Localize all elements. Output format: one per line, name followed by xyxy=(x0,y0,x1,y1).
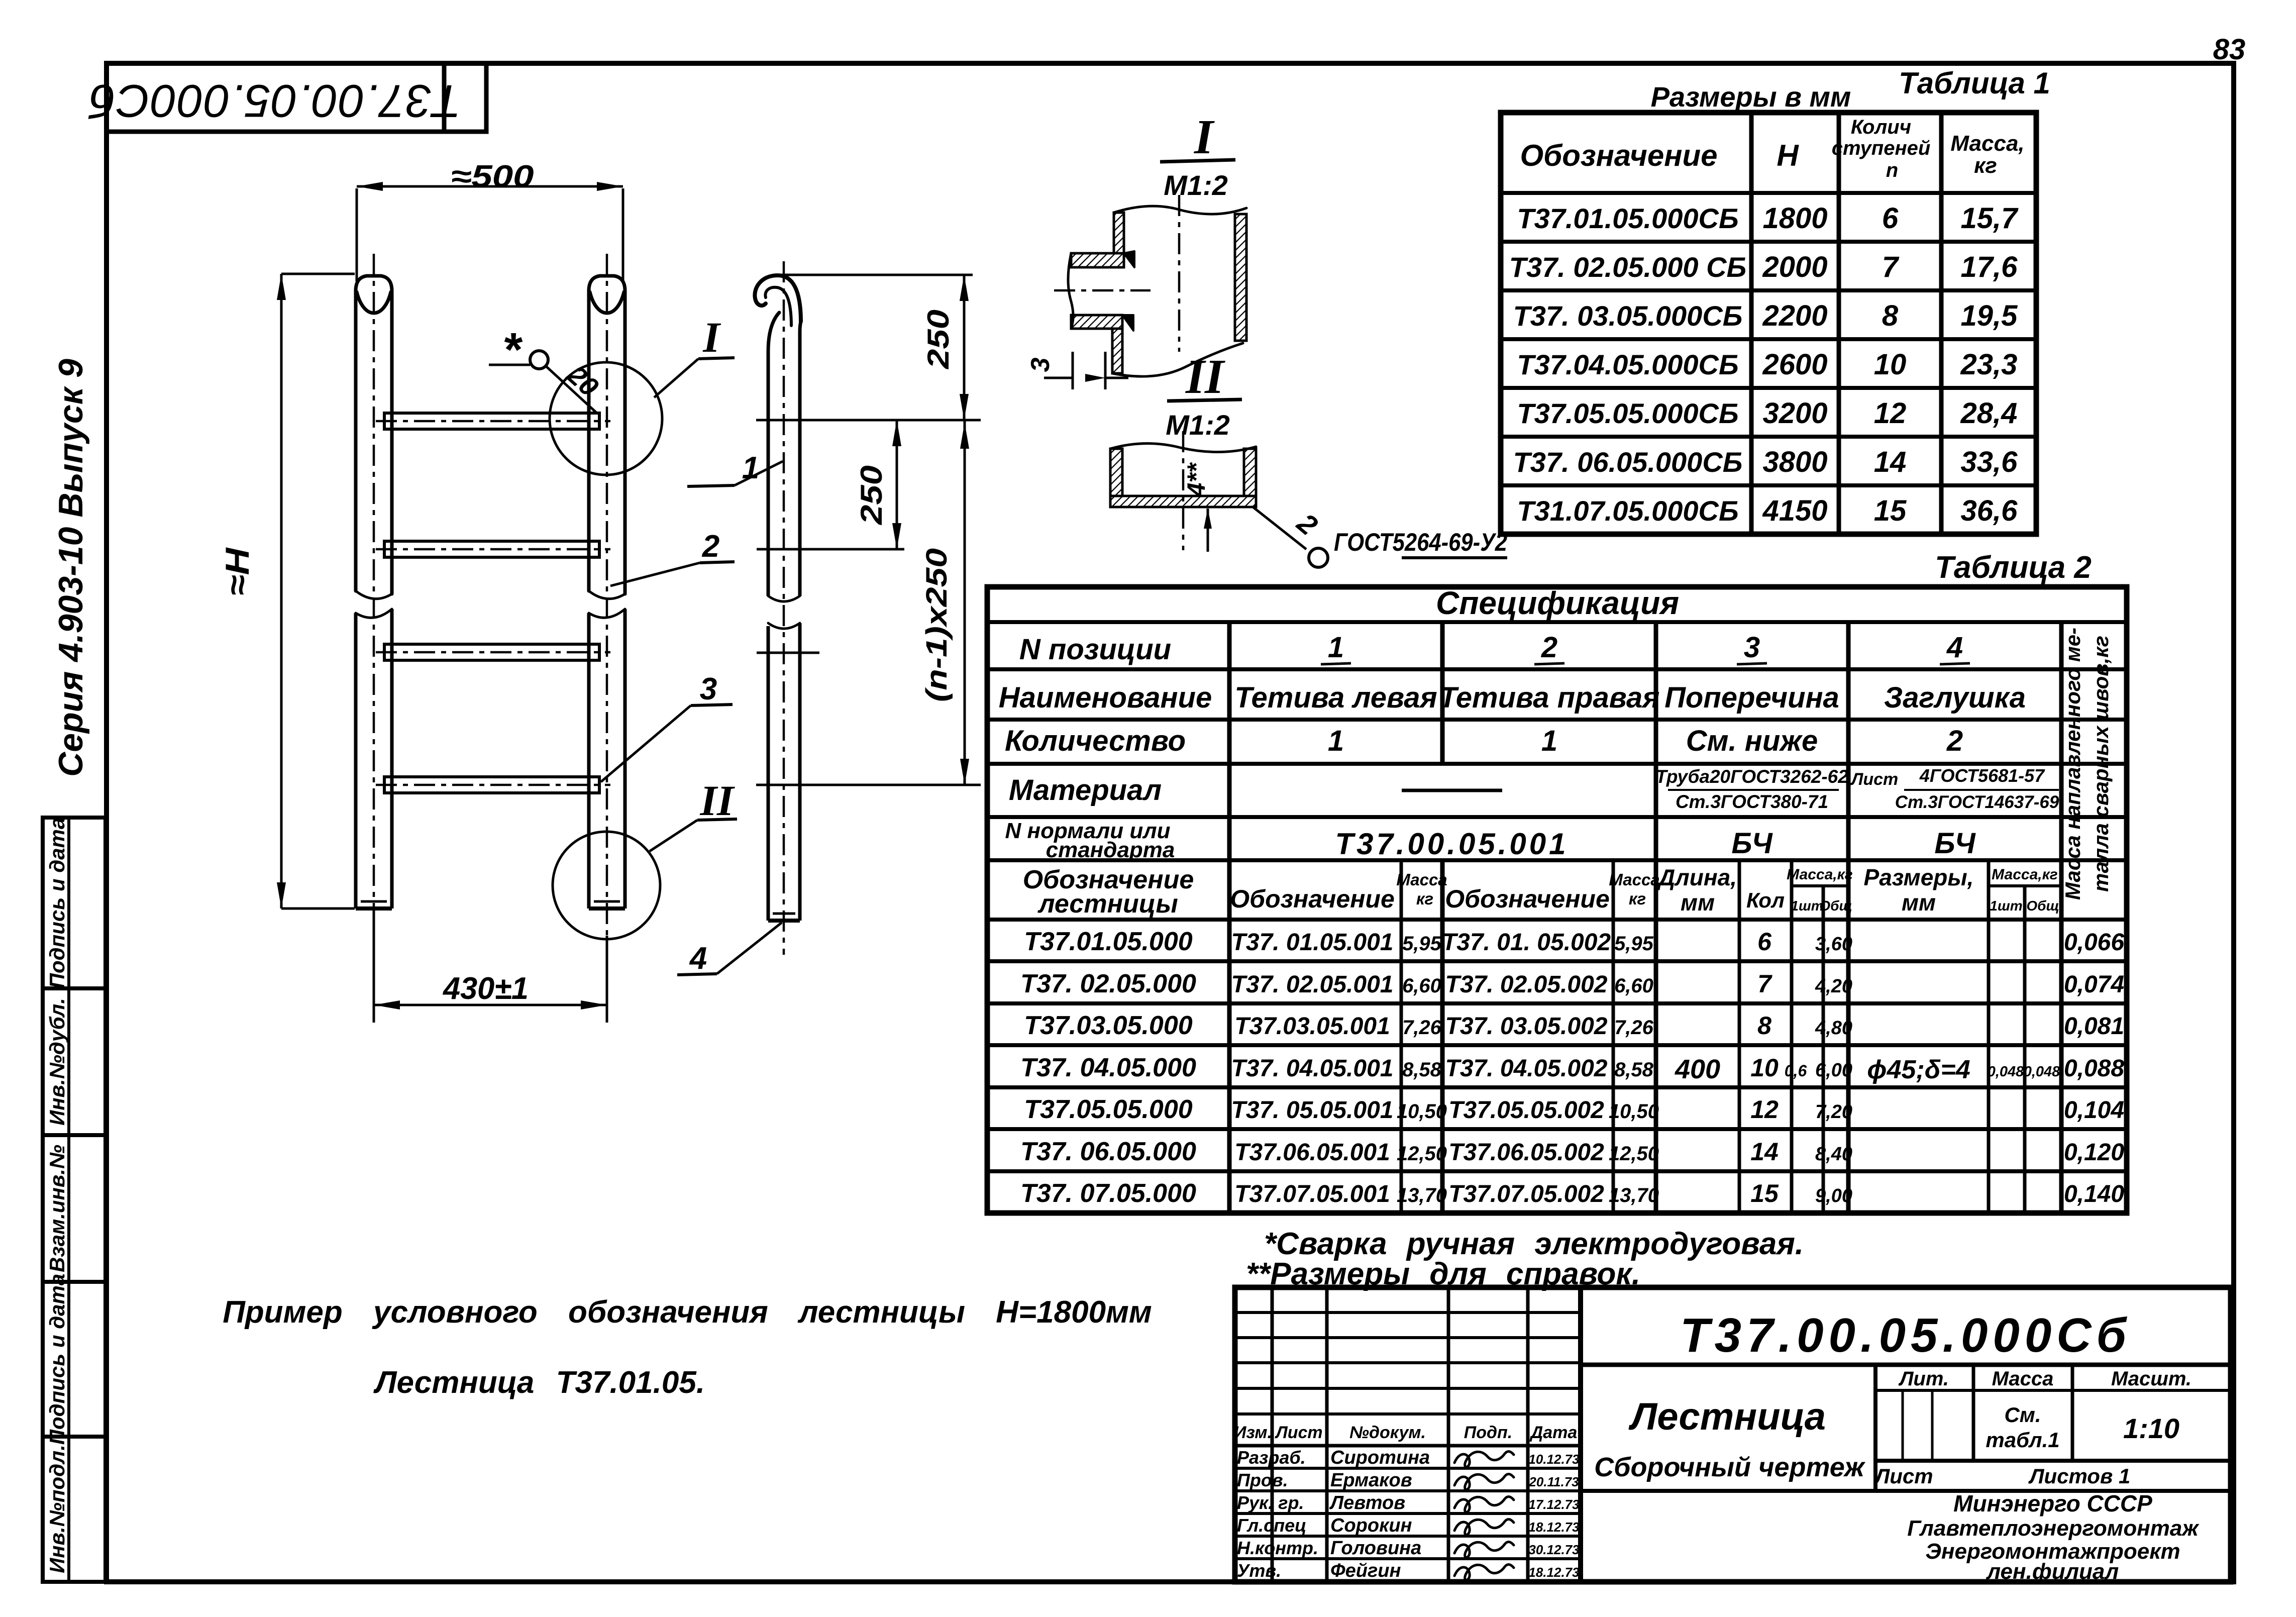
svg-text:6,00: 6,00 xyxy=(1815,1060,1852,1081)
svg-text:Размеры,: Размеры, xyxy=(1864,864,1974,890)
svg-text:10: 10 xyxy=(1874,348,1907,381)
svg-text:Сорокин: Сорокин xyxy=(1330,1515,1412,1536)
svg-text:6,60: 6,60 xyxy=(1614,975,1653,997)
svg-text:14: 14 xyxy=(1750,1138,1779,1166)
svg-text:0,048: 0,048 xyxy=(2024,1064,2060,1080)
svg-text:4: 4 xyxy=(689,941,707,976)
svg-text:Масса,кг: Масса,кг xyxy=(1992,866,2058,883)
svg-text:Т37. 02.05.002: Т37. 02.05.002 xyxy=(1445,971,1608,998)
table 2 grid xyxy=(987,587,2127,1213)
svg-text:10: 10 xyxy=(1750,1054,1779,1082)
svg-text:Ермаков: Ермаков xyxy=(1330,1470,1412,1491)
svg-text:Дата: Дата xyxy=(1529,1423,1578,1442)
svg-text:Т37.01.05.000: Т37.01.05.000 xyxy=(1024,927,1192,956)
svg-text:мм: мм xyxy=(1902,889,1936,916)
svg-text:12: 12 xyxy=(1750,1095,1779,1124)
svg-text:Подп.: Подп. xyxy=(1464,1423,1512,1442)
right rail centerline xyxy=(606,254,608,1023)
svg-text:≈500: ≈500 xyxy=(451,159,534,194)
svg-text:Головина: Головина xyxy=(1330,1538,1421,1559)
svg-text:Рук. гр.: Рук. гр. xyxy=(1237,1492,1304,1513)
svg-text:Тетива левая: Тетива левая xyxy=(1234,681,1437,714)
detail I dim 3 xyxy=(1072,352,1074,389)
svg-text:Лестница: Лестница xyxy=(1628,1395,1826,1438)
svg-text:БЧ: БЧ xyxy=(1934,827,1976,860)
svg-text:Т37.03.05.000: Т37.03.05.000 xyxy=(1024,1011,1192,1040)
doc number cell xyxy=(1581,1363,2231,1367)
svg-text:13,70: 13,70 xyxy=(1609,1184,1659,1206)
svg-text:8: 8 xyxy=(1882,299,1899,332)
svg-text:14: 14 xyxy=(1874,446,1907,478)
svg-text:7,26: 7,26 xyxy=(1402,1017,1442,1039)
svg-text:Заглушка: Заглушка xyxy=(1884,681,2026,714)
detail I: rung bottom wall (hatched) xyxy=(1071,315,1122,329)
svg-text:Т37. 04.05.000: Т37. 04.05.000 xyxy=(1020,1053,1196,1082)
svg-text:мм: мм xyxy=(1681,889,1715,916)
detail I: rail wall right (hatched) xyxy=(1235,214,1246,341)
svg-text:Главтеплоэнергомонтаж: Главтеплоэнергомонтаж xyxy=(1907,1516,2200,1541)
svg-text:4,80: 4,80 xyxy=(1815,1018,1852,1039)
svg-text:0,066: 0,066 xyxy=(2064,929,2124,956)
weld note leader 2 xyxy=(1254,508,1306,549)
svg-text:Обозначение: Обозначение xyxy=(1520,139,1717,172)
svg-text:М1:2: М1:2 xyxy=(1166,409,1230,441)
svg-text:18.12.73: 18.12.73 xyxy=(1528,1565,1580,1580)
side view hook top xyxy=(755,275,801,322)
svg-text:Масса,кг: Масса,кг xyxy=(1787,866,1853,883)
svg-text:4150: 4150 xyxy=(1762,494,1827,527)
detail I: rail wall left upper (hatched) xyxy=(1114,213,1124,257)
side view tube xyxy=(767,352,770,596)
svg-text:430±1: 430±1 xyxy=(442,971,529,1006)
detail II: end cap (hatched) xyxy=(1110,496,1256,507)
svg-text:10.12.73: 10.12.73 xyxy=(1528,1452,1580,1467)
svg-text:3: 3 xyxy=(1026,357,1055,372)
svg-text:2: 2 xyxy=(1541,631,1557,664)
svg-text:*Сварка ручная электродугова: *Сварка ручная электродуговая. xyxy=(1264,1227,1804,1261)
detail II centerline xyxy=(1182,431,1185,550)
svg-text:9,00: 9,00 xyxy=(1815,1185,1852,1206)
lit massa masht cells xyxy=(1873,1365,1877,1491)
svg-text:ГОСТ5264-69-У2: ГОСТ5264-69-У2 xyxy=(1334,528,1507,556)
svg-text:5,95: 5,95 xyxy=(1402,933,1442,955)
svg-text:23,3: 23,3 xyxy=(1960,348,2018,381)
svg-text:0,048: 0,048 xyxy=(1988,1064,2024,1080)
svg-text:Т37.05.05.002: Т37.05.05.002 xyxy=(1448,1097,1604,1124)
svg-text:0,074: 0,074 xyxy=(2064,971,2124,998)
svg-text:Н.контр.: Н.контр. xyxy=(1237,1538,1318,1558)
svg-text:кг: кг xyxy=(1416,889,1433,908)
svg-text:1:10: 1:10 xyxy=(2123,1412,2179,1444)
svg-text:Т37.04.05.000СБ: Т37.04.05.000СБ xyxy=(1517,349,1738,380)
svg-text:лен.филиал: лен.филиал xyxy=(1986,1559,2119,1584)
detail I break lines xyxy=(1114,206,1246,214)
svg-text:Обозначение: Обозначение xyxy=(1230,885,1395,913)
svg-text:Лист: Лист xyxy=(1873,1464,1933,1488)
margin strip boxes xyxy=(43,818,106,1582)
svg-text:I: I xyxy=(1194,110,1215,164)
svg-text:Масшт.: Масшт. xyxy=(2111,1368,2191,1390)
svg-text:3200: 3200 xyxy=(1762,397,1827,430)
svg-text:Взам.инв.№: Взам.инв.№ xyxy=(45,1145,69,1272)
svg-text:17,6: 17,6 xyxy=(1961,251,2018,283)
svg-text:Т37. 05.05.001: Т37. 05.05.001 xyxy=(1231,1097,1394,1124)
svg-text:1шт: 1шт xyxy=(1791,898,1823,914)
svg-text:2: 2 xyxy=(702,529,719,564)
svg-text:0,120: 0,120 xyxy=(2064,1139,2124,1166)
svg-text:33,6: 33,6 xyxy=(1961,446,2018,478)
svg-text:12: 12 xyxy=(1874,397,1907,430)
detail circle II on rail bottom xyxy=(553,832,660,939)
svg-text:10,50: 10,50 xyxy=(1397,1100,1447,1123)
svg-text:кг: кг xyxy=(1974,153,1997,178)
svg-text:Т37. 07.05.000: Т37. 07.05.000 xyxy=(1020,1179,1196,1208)
table 1 grid xyxy=(1501,113,2036,534)
svg-text:13,70: 13,70 xyxy=(1397,1184,1447,1206)
svg-text:Лист: Лист xyxy=(1850,770,1898,789)
svg-text:4: 4 xyxy=(1946,631,1963,664)
svg-text:Серия 4.903-10 Выпуск 9: Серия 4.903-10 Выпуск 9 xyxy=(52,359,90,777)
svg-text:Лестница Т37.01.05.: Лестница Т37.01.05. xyxy=(373,1365,705,1400)
svg-text:30.12.73: 30.12.73 xyxy=(1528,1542,1580,1557)
detail II: tube wall right (hatched) xyxy=(1244,449,1256,503)
svg-text:Утв.: Утв. xyxy=(1237,1560,1281,1581)
svg-text:*: * xyxy=(504,323,523,376)
svg-text:II: II xyxy=(1185,350,1225,404)
stamp box (inverted doc number) xyxy=(107,63,486,132)
svg-text:2600: 2600 xyxy=(1762,348,1827,381)
svg-text:250: 250 xyxy=(855,465,888,525)
svg-text:Наименование: Наименование xyxy=(999,681,1212,714)
svg-text:7,26: 7,26 xyxy=(1614,1017,1654,1039)
list / listov row xyxy=(1581,1489,2231,1493)
detail I centerlines xyxy=(1178,195,1181,352)
rungs (poperechina) xyxy=(384,413,599,429)
svg-text:Масса: Масса xyxy=(1396,870,1447,889)
svg-text:Тетива правая: Тетива правая xyxy=(1439,681,1660,714)
svg-text:ступеней: ступеней xyxy=(1832,137,1931,159)
svg-text:1шт: 1шт xyxy=(1990,898,2022,914)
svg-text:Т37. 04.05.002: Т37. 04.05.002 xyxy=(1445,1055,1608,1082)
hook top extension line xyxy=(776,274,973,276)
svg-text:Инв.№дубл.: Инв.№дубл. xyxy=(45,998,69,1126)
svg-text:Т37.03.05.001: Т37.03.05.001 xyxy=(1234,1013,1390,1040)
svg-text:0,140: 0,140 xyxy=(2064,1181,2124,1207)
svg-text:18.12.73: 18.12.73 xyxy=(1528,1520,1580,1535)
detail circle I on joint xyxy=(550,362,662,475)
svg-text:0,088: 0,088 xyxy=(2064,1055,2124,1082)
svg-text:15: 15 xyxy=(1750,1179,1779,1207)
svg-text:2: 2 xyxy=(1946,725,1963,757)
svg-text:БЧ: БЧ xyxy=(1731,827,1773,860)
svg-text:7,20: 7,20 xyxy=(1815,1101,1852,1123)
svg-text:Т37. 01. 05.002: Т37. 01. 05.002 xyxy=(1442,929,1611,956)
ladder front view: left rail (tetiva) xyxy=(356,276,392,594)
svg-text:Т37.01.05.000СБ: Т37.01.05.000СБ xyxy=(1517,203,1738,234)
svg-text:6: 6 xyxy=(1757,928,1772,956)
left rail centerline xyxy=(373,254,375,935)
svg-text:2000: 2000 xyxy=(1762,251,1827,283)
svg-text:Т37.00.05.000Сб: Т37.00.05.000Сб xyxy=(1680,1308,2131,1362)
detail I weld fillets xyxy=(1124,251,1134,267)
svg-text:0,6: 0,6 xyxy=(1785,1062,1807,1080)
svg-text:Сборочный чертеж: Сборочный чертеж xyxy=(1594,1452,1866,1482)
svg-text:Таблица 2: Таблица 2 xyxy=(1935,550,2092,585)
title block revision columns xyxy=(1271,1287,1274,1582)
detail I: rung top wall (hatched) xyxy=(1071,253,1124,267)
svg-text:Кол: Кол xyxy=(1746,888,1785,912)
svg-text:Подпись и дата: Подпись и дата xyxy=(45,1274,69,1445)
svg-text:Длина,: Длина, xyxy=(1656,864,1737,890)
svg-text:стандарта: стандарта xyxy=(1046,838,1175,862)
dim (n-1)x250 xyxy=(964,420,966,785)
svg-text:4ГОСТ5681-57: 4ГОСТ5681-57 xyxy=(1919,765,2045,786)
svg-text:Т37.05.05.000СБ: Т37.05.05.000СБ xyxy=(1517,397,1738,429)
svg-text:Левтов: Левтов xyxy=(1329,1492,1405,1513)
svg-text:кг: кг xyxy=(1629,889,1646,908)
svg-text:Минэнерго СССР: Минэнерго СССР xyxy=(1953,1490,2152,1517)
dim 250 (rung pitch) xyxy=(896,420,898,549)
svg-text:М1:2: М1:2 xyxy=(1164,169,1228,201)
svg-text:Т37.05.05.000: Т37.05.05.000 xyxy=(1024,1095,1192,1124)
svg-text:17.12.73: 17.12.73 xyxy=(1528,1497,1580,1512)
svg-text:Т37.07.05.001: Т37.07.05.001 xyxy=(1234,1181,1390,1207)
svg-text:250: 250 xyxy=(921,310,955,369)
svg-text:Т37. 02.05.001: Т37. 02.05.001 xyxy=(1231,971,1394,998)
svg-text:Колич: Колич xyxy=(1851,116,1911,138)
svg-text:19,5: 19,5 xyxy=(1961,299,2018,332)
svg-text:400: 400 xyxy=(1675,1054,1720,1084)
svg-text:15: 15 xyxy=(1874,494,1907,527)
svg-text:табл.1: табл.1 xyxy=(1986,1428,2059,1452)
svg-text:6: 6 xyxy=(1882,202,1899,235)
svg-text:83: 83 xyxy=(2213,33,2246,66)
svg-text:Т37. 06.05.000СБ: Т37. 06.05.000СБ xyxy=(1513,446,1743,478)
dim 430±1 xyxy=(373,911,375,1023)
side view tube break xyxy=(768,596,800,601)
svg-text:1: 1 xyxy=(1328,631,1344,664)
svg-text:3,60: 3,60 xyxy=(1815,934,1852,955)
svg-text:Масса,: Масса, xyxy=(1950,131,2024,156)
svg-text:n: n xyxy=(1886,159,1898,181)
weld note flag circle xyxy=(1309,548,1328,567)
svg-text:Подпись и дата: Подпись и дата xyxy=(45,818,69,988)
svg-text:7: 7 xyxy=(1882,251,1900,283)
svg-text:36,6: 36,6 xyxy=(1961,494,2018,527)
svg-text:Гл.спец: Гл.спец xyxy=(1237,1515,1306,1536)
svg-text:N позиции: N позиции xyxy=(1019,633,1171,666)
svg-text:Лит.: Лит. xyxy=(1898,1368,1949,1390)
svg-text:0,081: 0,081 xyxy=(2064,1013,2124,1040)
svg-text:№докум.: №докум. xyxy=(1349,1423,1426,1442)
svg-text:Количество: Количество xyxy=(1005,725,1186,757)
svg-text:лестницы: лестницы xyxy=(1037,889,1178,919)
svg-text:ϕ45;δ=4: ϕ45;δ=4 xyxy=(1867,1055,1970,1084)
svg-text:Масса наплавленного ме-: Масса наплавленного ме- xyxy=(2061,628,2084,900)
svg-text:Лист: Лист xyxy=(1274,1423,1322,1442)
svg-text:II: II xyxy=(700,776,735,825)
title block revision rows xyxy=(1235,1311,1581,1314)
svg-text:Т37.07.05.002: Т37.07.05.002 xyxy=(1448,1181,1604,1207)
svg-text:Материал: Материал xyxy=(1009,774,1162,806)
svg-text:4,20: 4,20 xyxy=(1815,976,1852,997)
svg-text:Т37. 01.05.001: Т37. 01.05.001 xyxy=(1231,929,1394,956)
svg-text:7: 7 xyxy=(1757,970,1772,998)
svg-text:1: 1 xyxy=(1541,725,1557,757)
weld leader with 20 xyxy=(547,367,597,413)
svg-text:Т37.00.05.001: Т37.00.05.001 xyxy=(1335,827,1569,861)
svg-text:Т37.06.05.002: Т37.06.05.002 xyxy=(1448,1139,1604,1166)
svg-text:1800: 1800 xyxy=(1762,202,1827,235)
svg-text:См.: См. xyxy=(2004,1403,2041,1427)
svg-text:Сиротина: Сиротина xyxy=(1330,1447,1430,1468)
svg-text:Т37. 02.05.000 СБ: Т37. 02.05.000 СБ xyxy=(1509,251,1746,283)
svg-text:Разраб.: Разраб. xyxy=(1237,1447,1306,1468)
svg-text:Т37.06.05.001: Т37.06.05.001 xyxy=(1234,1139,1390,1166)
svg-text:Ст.3ГОСТ14637-69: Ст.3ГОСТ14637-69 xyxy=(1895,792,2059,812)
svg-text:Н: Н xyxy=(1777,139,1799,172)
svg-text:Пров.: Пров. xyxy=(1237,1470,1288,1490)
dim ~500 xyxy=(356,188,358,281)
svg-text:8,40: 8,40 xyxy=(1815,1144,1852,1165)
weld symbol circle xyxy=(489,364,530,366)
svg-text:Изм.: Изм. xyxy=(1234,1423,1272,1442)
rung level lines on side view xyxy=(756,419,981,422)
svg-text:Т37. 02.05.000: Т37. 02.05.000 xyxy=(1020,969,1196,998)
side view centerline xyxy=(783,261,785,955)
svg-text:3800: 3800 xyxy=(1762,446,1827,478)
svg-text:12,50: 12,50 xyxy=(1397,1143,1447,1165)
svg-text:Листов 1: Листов 1 xyxy=(2028,1464,2131,1488)
svg-text:талла сварных швов,кг: талла сварных швов,кг xyxy=(2089,636,2113,892)
svg-text:12,50: 12,50 xyxy=(1609,1143,1659,1165)
svg-text:Т37. 03.05.002: Т37. 03.05.002 xyxy=(1445,1013,1608,1040)
svg-text:5,95: 5,95 xyxy=(1614,933,1654,955)
svg-text:Т37. 04.05.001: Т37. 04.05.001 xyxy=(1231,1055,1394,1082)
svg-text:3: 3 xyxy=(700,672,717,706)
svg-text:0,104: 0,104 xyxy=(2064,1097,2124,1124)
svg-text:Инв.№подл.: Инв.№подл. xyxy=(45,1445,69,1573)
svg-text:Т37. 06.05.000: Т37. 06.05.000 xyxy=(1020,1137,1196,1166)
svg-text:(n-1)x250: (n-1)x250 xyxy=(920,548,953,702)
svg-text:Масса: Масса xyxy=(1609,870,1659,889)
svg-text:Размеры в мм: Размеры в мм xyxy=(1651,81,1851,113)
side view tube lower part xyxy=(767,626,770,921)
svg-text:8,58: 8,58 xyxy=(1402,1059,1442,1081)
svg-text:15,7: 15,7 xyxy=(1961,202,2019,235)
svg-text:10,50: 10,50 xyxy=(1609,1100,1659,1123)
ladder front view: right rail (tetiva) xyxy=(589,276,625,594)
svg-text:4**: 4** xyxy=(1182,462,1210,497)
svg-text:≈H: ≈H xyxy=(219,547,256,596)
svg-text:Т37.00.05.000Сб: Т37.00.05.000Сб xyxy=(88,75,461,127)
svg-text:Поперечина: Поперечина xyxy=(1664,681,1839,714)
svg-text:8,58: 8,58 xyxy=(1614,1059,1654,1081)
svg-text:Ст.3ГОСТ380-71: Ст.3ГОСТ380-71 xyxy=(1676,791,1828,812)
svg-text:Общ: Общ xyxy=(1819,898,1852,914)
title block outer xyxy=(1235,1287,2231,1582)
svg-text:28,4: 28,4 xyxy=(1960,397,2018,430)
dim 250 (top, hook) xyxy=(963,275,966,420)
svg-text:Спецификация: Спецификация xyxy=(1436,585,1679,621)
svg-text:Труба20ГОСТ3262-62: Труба20ГОСТ3262-62 xyxy=(1655,766,1848,787)
svg-text:Обозначение: Обозначение xyxy=(1445,885,1610,913)
svg-text:Пример условного обозначения: Пример условного обозначения лестницы Н=… xyxy=(223,1295,1152,1330)
dim ~H xyxy=(281,273,355,275)
svg-text:Масса: Масса xyxy=(1992,1368,2054,1390)
svg-text:1: 1 xyxy=(1328,725,1344,757)
svg-text:2200: 2200 xyxy=(1762,299,1827,332)
svg-text:8: 8 xyxy=(1757,1012,1771,1040)
svg-text:3: 3 xyxy=(1744,631,1760,664)
svg-text:I: I xyxy=(702,313,721,361)
svg-text:Таблица 1: Таблица 1 xyxy=(1899,66,2050,100)
svg-text:6,60: 6,60 xyxy=(1402,975,1441,997)
svg-text:Т31.07.05.000СБ: Т31.07.05.000СБ xyxy=(1517,495,1738,527)
svg-text:См. ниже: См. ниже xyxy=(1686,725,1818,757)
detail II: tube wall left (hatched) xyxy=(1110,449,1122,503)
svg-text:20.11.73: 20.11.73 xyxy=(1528,1474,1579,1489)
detail I: rail wall left lower (hatched) xyxy=(1112,326,1122,373)
detail II break line xyxy=(1110,443,1256,452)
svg-text:Общ: Общ xyxy=(2026,898,2059,914)
svg-text:Т37. 03.05.000СБ: Т37. 03.05.000СБ xyxy=(1513,300,1743,332)
svg-text:Фейгин: Фейгин xyxy=(1330,1560,1401,1581)
